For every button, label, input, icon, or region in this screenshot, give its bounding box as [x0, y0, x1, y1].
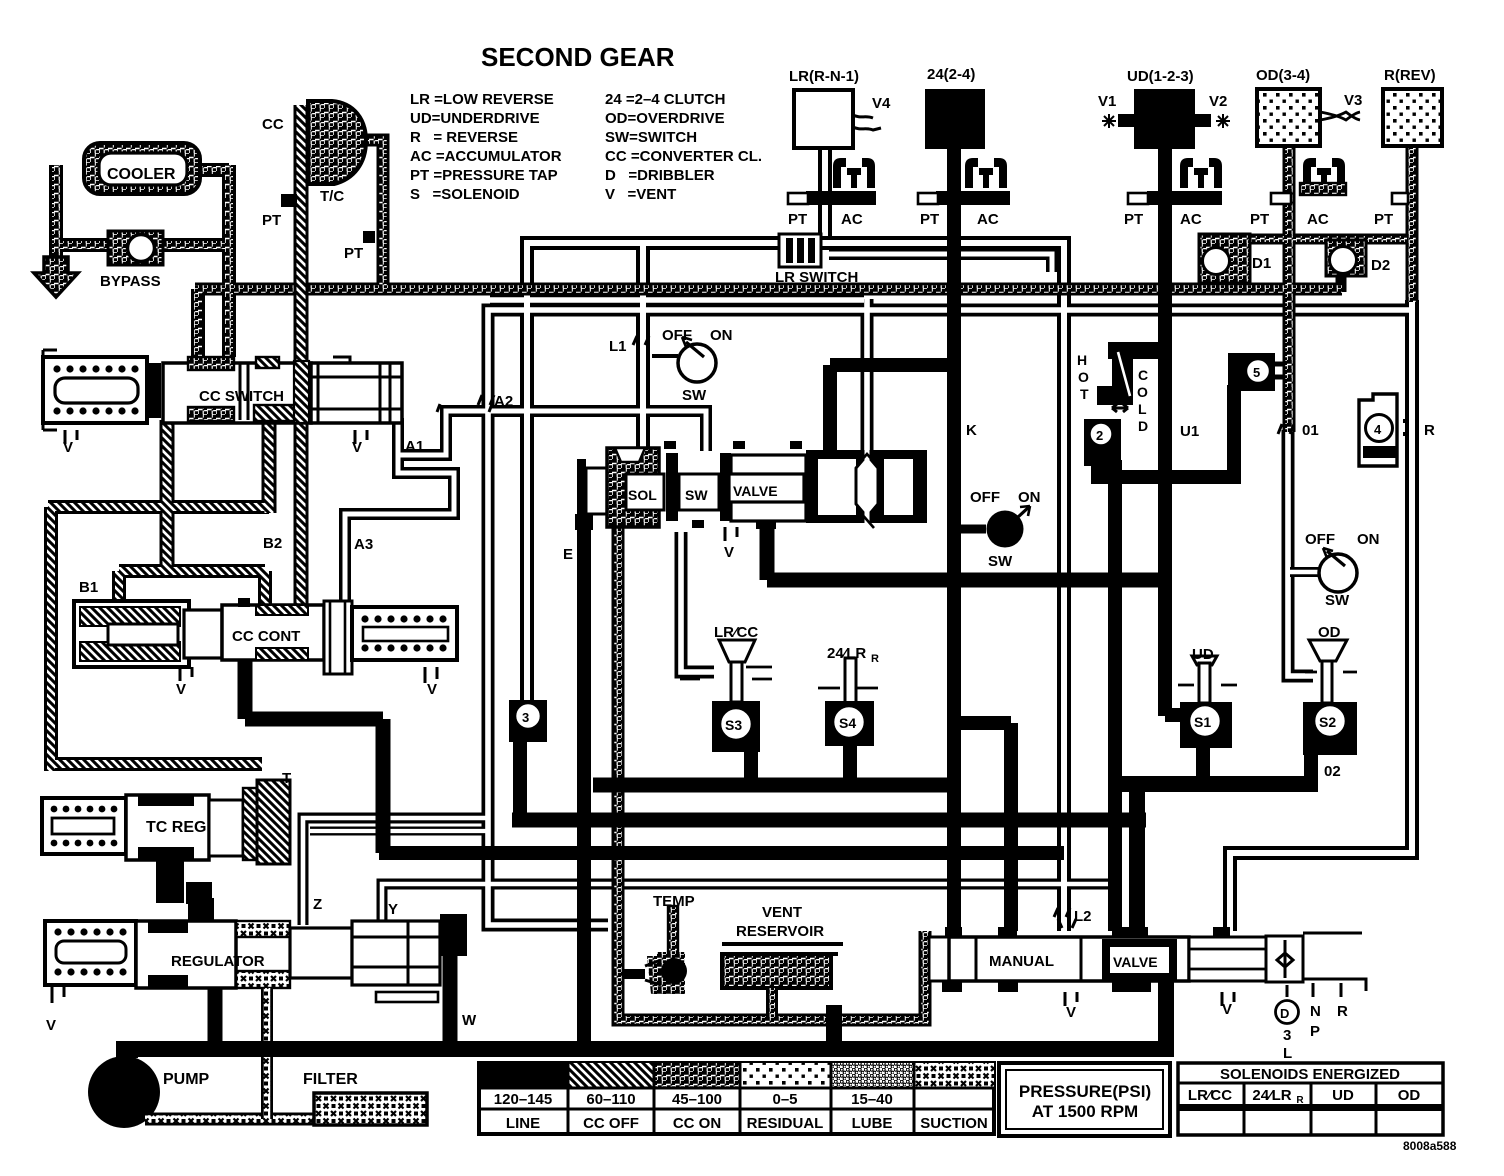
- svg-text:LR(R-N-1): LR(R-N-1): [789, 68, 859, 85]
- svg-text:L: L: [1138, 401, 1147, 417]
- svg-text:AC: AC: [841, 211, 863, 228]
- svg-text:2: 2: [1096, 428, 1103, 443]
- svg-text:V =VENT: V =VENT: [605, 186, 676, 203]
- svg-text:U1: U1: [1180, 423, 1199, 440]
- svg-text:D =DRIBBLER: D =DRIBBLER: [605, 167, 715, 184]
- svg-text:V: V: [352, 439, 362, 456]
- svg-text:UD=UNDERDRIVE: UD=UNDERDRIVE: [410, 110, 540, 127]
- svg-text:24 =2–4 CLUTCH: 24 =2–4 CLUTCH: [605, 91, 725, 108]
- svg-text:T/C: T/C: [320, 188, 344, 205]
- svg-text:CC OFF: CC OFF: [583, 1115, 639, 1132]
- svg-text:OFF: OFF: [970, 489, 1000, 506]
- svg-text:SW=SWITCH: SW=SWITCH: [605, 129, 697, 146]
- svg-text:UD(1-2-3): UD(1-2-3): [1127, 68, 1194, 85]
- svg-text:OD(3-4): OD(3-4): [1256, 67, 1310, 84]
- svg-text:C: C: [1138, 367, 1148, 383]
- svg-text:T: T: [282, 770, 291, 787]
- svg-text:O: O: [1078, 369, 1089, 385]
- svg-text:OFF: OFF: [1305, 531, 1335, 548]
- svg-text:V4: V4: [872, 95, 891, 112]
- svg-text:PRESSURE(PSI): PRESSURE(PSI): [1019, 1082, 1151, 1101]
- svg-text:R: R: [1296, 1095, 1304, 1106]
- svg-text:SUCTION: SUCTION: [920, 1115, 988, 1132]
- svg-text:OD: OD: [1398, 1087, 1421, 1104]
- svg-text:CC ON: CC ON: [673, 1115, 721, 1132]
- svg-text:PT: PT: [1250, 211, 1269, 228]
- svg-text:LUBE: LUBE: [852, 1115, 893, 1132]
- svg-text:OD=OVERDRIVE: OD=OVERDRIVE: [605, 110, 725, 127]
- svg-text:LR⁄CC: LR⁄CC: [1188, 1087, 1232, 1104]
- svg-text:SW: SW: [1325, 592, 1350, 609]
- svg-text:VALVE: VALVE: [733, 483, 778, 499]
- svg-text:0–5: 0–5: [772, 1091, 797, 1108]
- svg-text:T: T: [1080, 386, 1089, 402]
- svg-text:TC REG: TC REG: [146, 819, 206, 836]
- svg-text:BYPASS: BYPASS: [100, 273, 161, 290]
- svg-text:AT 1500 RPM: AT 1500 RPM: [1032, 1102, 1138, 1121]
- svg-text:L2: L2: [1074, 908, 1092, 925]
- svg-text:V: V: [1066, 1004, 1076, 1021]
- svg-text:AC: AC: [977, 211, 999, 228]
- svg-text:SECOND GEAR: SECOND GEAR: [481, 42, 675, 72]
- svg-text:L: L: [1283, 1045, 1292, 1062]
- svg-text:ON: ON: [1018, 489, 1041, 506]
- svg-text:FILTER: FILTER: [303, 1071, 358, 1088]
- svg-text:VALVE: VALVE: [1113, 954, 1158, 970]
- svg-text:V1: V1: [1098, 93, 1116, 110]
- svg-text:PT: PT: [262, 212, 281, 229]
- svg-text:PUMP: PUMP: [163, 1071, 210, 1088]
- svg-text:SW: SW: [685, 487, 708, 503]
- svg-text:01: 01: [1302, 422, 1319, 439]
- svg-text:8008a588: 8008a588: [1403, 1139, 1457, 1153]
- svg-text:3: 3: [522, 710, 529, 725]
- svg-text:V: V: [63, 439, 73, 456]
- svg-text:UD: UD: [1192, 646, 1214, 663]
- svg-text:SOL: SOL: [628, 487, 657, 503]
- svg-text:SW: SW: [682, 387, 707, 404]
- svg-text:V2: V2: [1209, 93, 1227, 110]
- svg-text:MANUAL: MANUAL: [989, 953, 1054, 970]
- svg-text:SOLENOIDS ENERGIZED: SOLENOIDS ENERGIZED: [1220, 1066, 1400, 1083]
- svg-text:V: V: [1222, 1001, 1232, 1018]
- svg-text:5: 5: [1253, 365, 1260, 380]
- svg-text:V: V: [724, 544, 734, 561]
- svg-text:B1: B1: [79, 579, 98, 596]
- svg-text:W: W: [462, 1012, 477, 1029]
- svg-text:S =SOLENOID: S =SOLENOID: [410, 186, 520, 203]
- svg-text:Z: Z: [313, 896, 322, 913]
- svg-text:A3: A3: [354, 536, 373, 553]
- svg-text:UD: UD: [1332, 1087, 1354, 1104]
- svg-text:PT: PT: [344, 245, 363, 262]
- svg-text:O: O: [1137, 384, 1148, 400]
- svg-text:B2: B2: [263, 535, 282, 552]
- svg-text:24⁄LR: 24⁄LR: [1252, 1087, 1291, 1104]
- svg-text:3: 3: [1283, 1027, 1291, 1044]
- svg-text:E: E: [563, 546, 573, 563]
- svg-text:R(REV): R(REV): [1384, 67, 1436, 84]
- svg-text:CC: CC: [262, 116, 284, 133]
- svg-text:PT: PT: [1124, 211, 1143, 228]
- svg-text:SW: SW: [988, 553, 1013, 570]
- svg-text:D1: D1: [1252, 255, 1271, 272]
- svg-text:AC: AC: [1180, 211, 1202, 228]
- svg-text:PT: PT: [788, 211, 807, 228]
- svg-text:LR⁄CC: LR⁄CC: [714, 624, 758, 641]
- svg-text:24(2-4): 24(2-4): [927, 66, 975, 83]
- svg-text:ON: ON: [1357, 531, 1380, 548]
- svg-text:ON: ON: [710, 327, 733, 344]
- svg-text:N: N: [1310, 1003, 1321, 1020]
- svg-text:02: 02: [1324, 763, 1341, 780]
- svg-text:S4: S4: [839, 715, 856, 731]
- svg-text:45–100: 45–100: [672, 1091, 722, 1108]
- svg-text:CC =CONVERTER CL.: CC =CONVERTER CL.: [605, 148, 762, 165]
- svg-text:D2: D2: [1371, 257, 1390, 274]
- svg-text:4: 4: [1374, 422, 1382, 437]
- svg-text:R: R: [1337, 1003, 1348, 1020]
- svg-text:P: P: [1310, 1023, 1320, 1040]
- svg-text:OFF: OFF: [662, 327, 692, 344]
- svg-text:CC SWITCH: CC SWITCH: [199, 388, 284, 405]
- svg-text:VENT: VENT: [762, 904, 802, 921]
- svg-text:H: H: [1077, 352, 1087, 368]
- svg-text:COOLER: COOLER: [107, 166, 176, 183]
- svg-text:PT: PT: [920, 211, 939, 228]
- svg-text:REGULATOR: REGULATOR: [171, 953, 265, 970]
- svg-text:D: D: [1280, 1006, 1289, 1021]
- svg-text:S3: S3: [725, 717, 742, 733]
- svg-text:V3: V3: [1344, 92, 1362, 109]
- svg-text:S1: S1: [1194, 714, 1211, 730]
- svg-text:PT: PT: [1374, 211, 1393, 228]
- svg-text:V: V: [427, 681, 437, 698]
- svg-text:L1: L1: [609, 338, 627, 355]
- svg-text:LR SWITCH: LR SWITCH: [775, 269, 858, 286]
- svg-text:V: V: [176, 681, 186, 698]
- svg-text:S2: S2: [1319, 714, 1336, 730]
- svg-text:A1: A1: [405, 438, 424, 455]
- svg-text:24⁄LR: 24⁄LR: [827, 645, 866, 662]
- svg-text:TEMP: TEMP: [653, 893, 695, 910]
- svg-text:AC: AC: [1307, 211, 1329, 228]
- svg-text:R = REVERSE: R = REVERSE: [410, 129, 518, 146]
- svg-text:RESIDUAL: RESIDUAL: [747, 1115, 824, 1132]
- svg-text:60–110: 60–110: [586, 1091, 635, 1108]
- svg-text:AC =ACCUMULATOR: AC =ACCUMULATOR: [410, 148, 562, 165]
- svg-text:R: R: [1424, 422, 1435, 439]
- svg-text:R: R: [871, 653, 879, 665]
- svg-text:A2: A2: [494, 393, 513, 410]
- svg-text:Y: Y: [388, 901, 398, 918]
- svg-text:OD: OD: [1318, 624, 1341, 641]
- svg-text:V: V: [46, 1017, 56, 1034]
- svg-text:CC CONT: CC CONT: [232, 628, 300, 645]
- svg-text:K: K: [966, 422, 977, 439]
- svg-text:PT =PRESSURE TAP: PT =PRESSURE TAP: [410, 167, 558, 184]
- svg-text:LR =LOW REVERSE: LR =LOW REVERSE: [410, 91, 554, 108]
- svg-text:15–40: 15–40: [851, 1091, 893, 1108]
- svg-text:RESERVOIR: RESERVOIR: [736, 923, 824, 940]
- svg-text:D: D: [1138, 418, 1148, 434]
- svg-text:120–145: 120–145: [494, 1091, 552, 1108]
- svg-text:LINE: LINE: [506, 1115, 540, 1132]
